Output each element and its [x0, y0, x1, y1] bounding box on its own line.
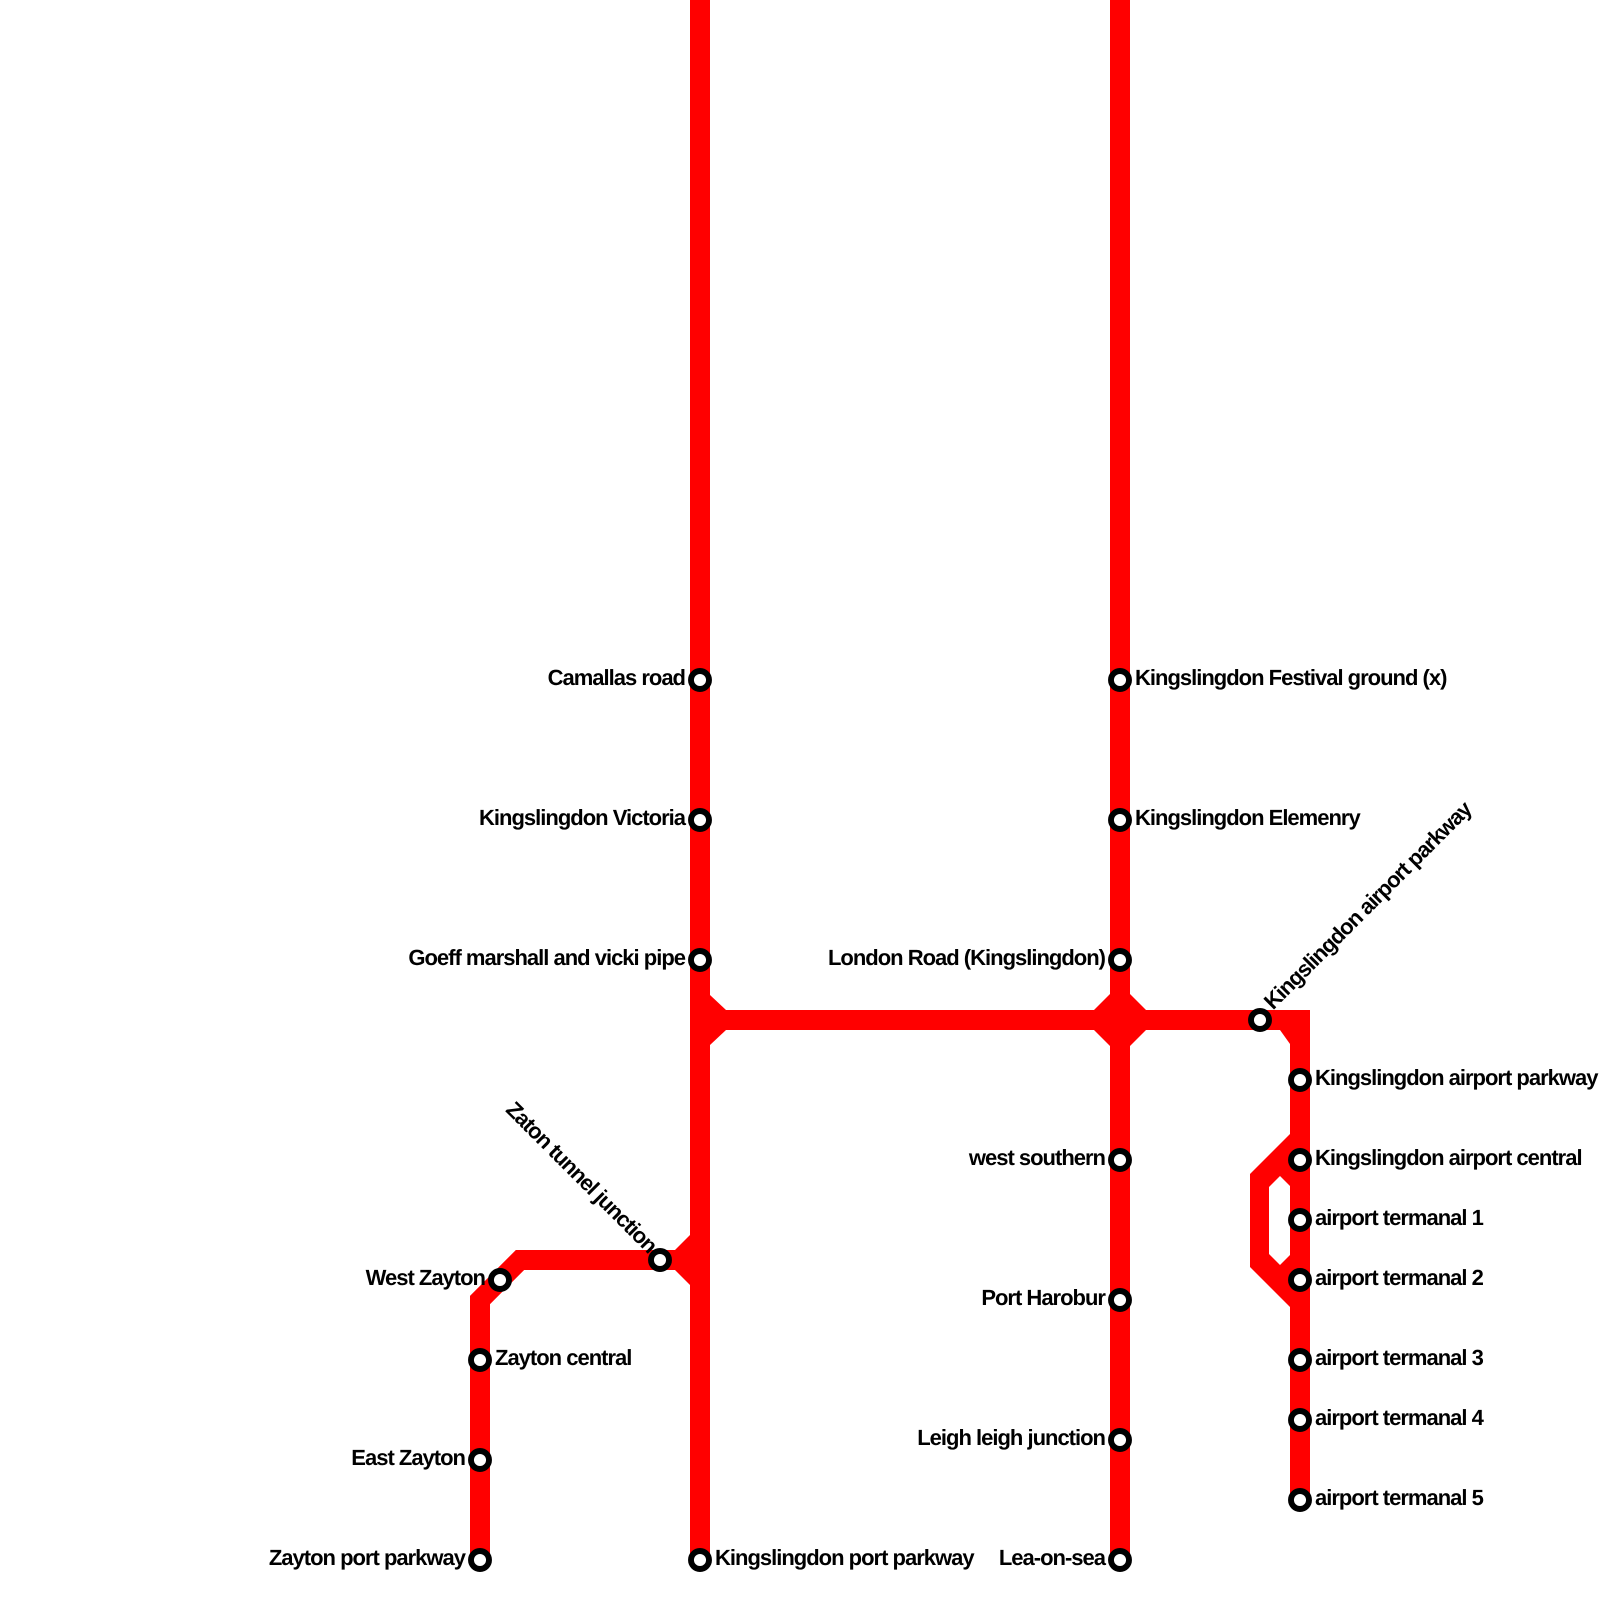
station airport termanal 2	[1291, 1271, 1309, 1289]
station Zaton tunnel junction	[651, 1251, 669, 1269]
node: Zaton junction flare	[674, 1235, 690, 1285]
svg-text:Kingslingdon port parkway: Kingslingdon port parkway	[715, 1545, 975, 1570]
wire: airport loop outer	[1250, 1134, 1290, 1307]
station Port Harobur	[1111, 1291, 1129, 1309]
node: airport corner flare	[1280, 1030, 1290, 1044]
svg-text:airport termanal 3: airport termanal 3	[1315, 1345, 1484, 1370]
node: central junction diamond	[1094, 994, 1146, 1046]
wire: connector + airport line (y=1020 then x=1300 down)	[700, 1020, 1300, 1500]
svg-text:Kingslingdon airport central: Kingslingdon airport central	[1315, 1145, 1582, 1170]
node: left junction flare	[710, 995, 726, 1045]
station Zayton port parkway	[471, 1551, 489, 1569]
station Camallas road	[691, 671, 709, 689]
station Kingslingdon Elemenry	[1111, 811, 1129, 829]
svg-text:West Zayton: West Zayton	[366, 1265, 486, 1290]
station Zayton central	[471, 1351, 489, 1369]
wire: Kingslingdon line (left vertical, x=700)	[690, 0, 710, 1560]
station airport termanal 3	[1291, 1351, 1309, 1369]
svg-text:Camallas road: Camallas road	[548, 665, 685, 690]
station Kingslingdon airport parkway (junction)	[1251, 1011, 1269, 1029]
station East Zayton	[471, 1451, 489, 1469]
svg-text:Leigh leigh junction: Leigh leigh junction	[917, 1425, 1105, 1450]
svg-text:Port Harobur: Port Harobur	[981, 1285, 1106, 1310]
station Kingslingdon port parkway	[691, 1551, 709, 1569]
station Goeff marshall and vicki pipe	[691, 951, 709, 969]
svg-text:Kingslingdon Victoria: Kingslingdon Victoria	[479, 805, 687, 830]
wire: Zayton branch	[480, 1260, 700, 1560]
svg-text:Kingslingdon airport parkway: Kingslingdon airport parkway	[1315, 1065, 1599, 1090]
svg-text:airport termanal 1: airport termanal 1	[1315, 1205, 1484, 1230]
svg-text:airport termanal 5: airport termanal 5	[1315, 1485, 1484, 1510]
station airport termanal 1	[1291, 1211, 1309, 1229]
station West Zayton	[491, 1271, 509, 1289]
svg-text:East Zayton: East Zayton	[351, 1445, 465, 1470]
node: airport loop hole	[1269, 1176, 1290, 1265]
svg-text:London Road (Kingslingdon): London Road (Kingslingdon)	[828, 945, 1106, 970]
svg-text:Goeff marshall and vicki pipe: Goeff marshall and vicki pipe	[408, 945, 685, 970]
svg-text:west southern: west southern	[968, 1145, 1106, 1170]
station Leigh leigh junction	[1111, 1431, 1129, 1449]
svg-text:airport termanal 4: airport termanal 4	[1315, 1405, 1485, 1430]
station Kingslingdon Victoria	[691, 811, 709, 829]
svg-text:airport termanal 2: airport termanal 2	[1315, 1265, 1484, 1290]
svg-text:Lea-on-sea: Lea-on-sea	[999, 1545, 1107, 1570]
station Kingslingdon airport central	[1291, 1151, 1309, 1169]
station Lea-on-sea	[1111, 1551, 1129, 1569]
station Kingslingdon Festival ground (x)	[1111, 671, 1129, 689]
station Kingslingdon airport parkway	[1291, 1071, 1309, 1089]
wire: middle line (x=1120)	[1110, 0, 1130, 1560]
svg-text:Kingslingdon Elemenry: Kingslingdon Elemenry	[1135, 805, 1361, 830]
svg-text:Kingslingdon Festival ground (: Kingslingdon Festival ground (x)	[1135, 665, 1447, 690]
svg-text:Zayton central: Zayton central	[495, 1345, 631, 1370]
station airport termanal 5	[1291, 1491, 1309, 1509]
station London Road (Kingslingdon)	[1111, 951, 1129, 969]
station west southern	[1111, 1151, 1129, 1169]
station airport termanal 4	[1291, 1411, 1309, 1429]
svg-text:Zayton port parkway: Zayton port parkway	[269, 1545, 467, 1570]
